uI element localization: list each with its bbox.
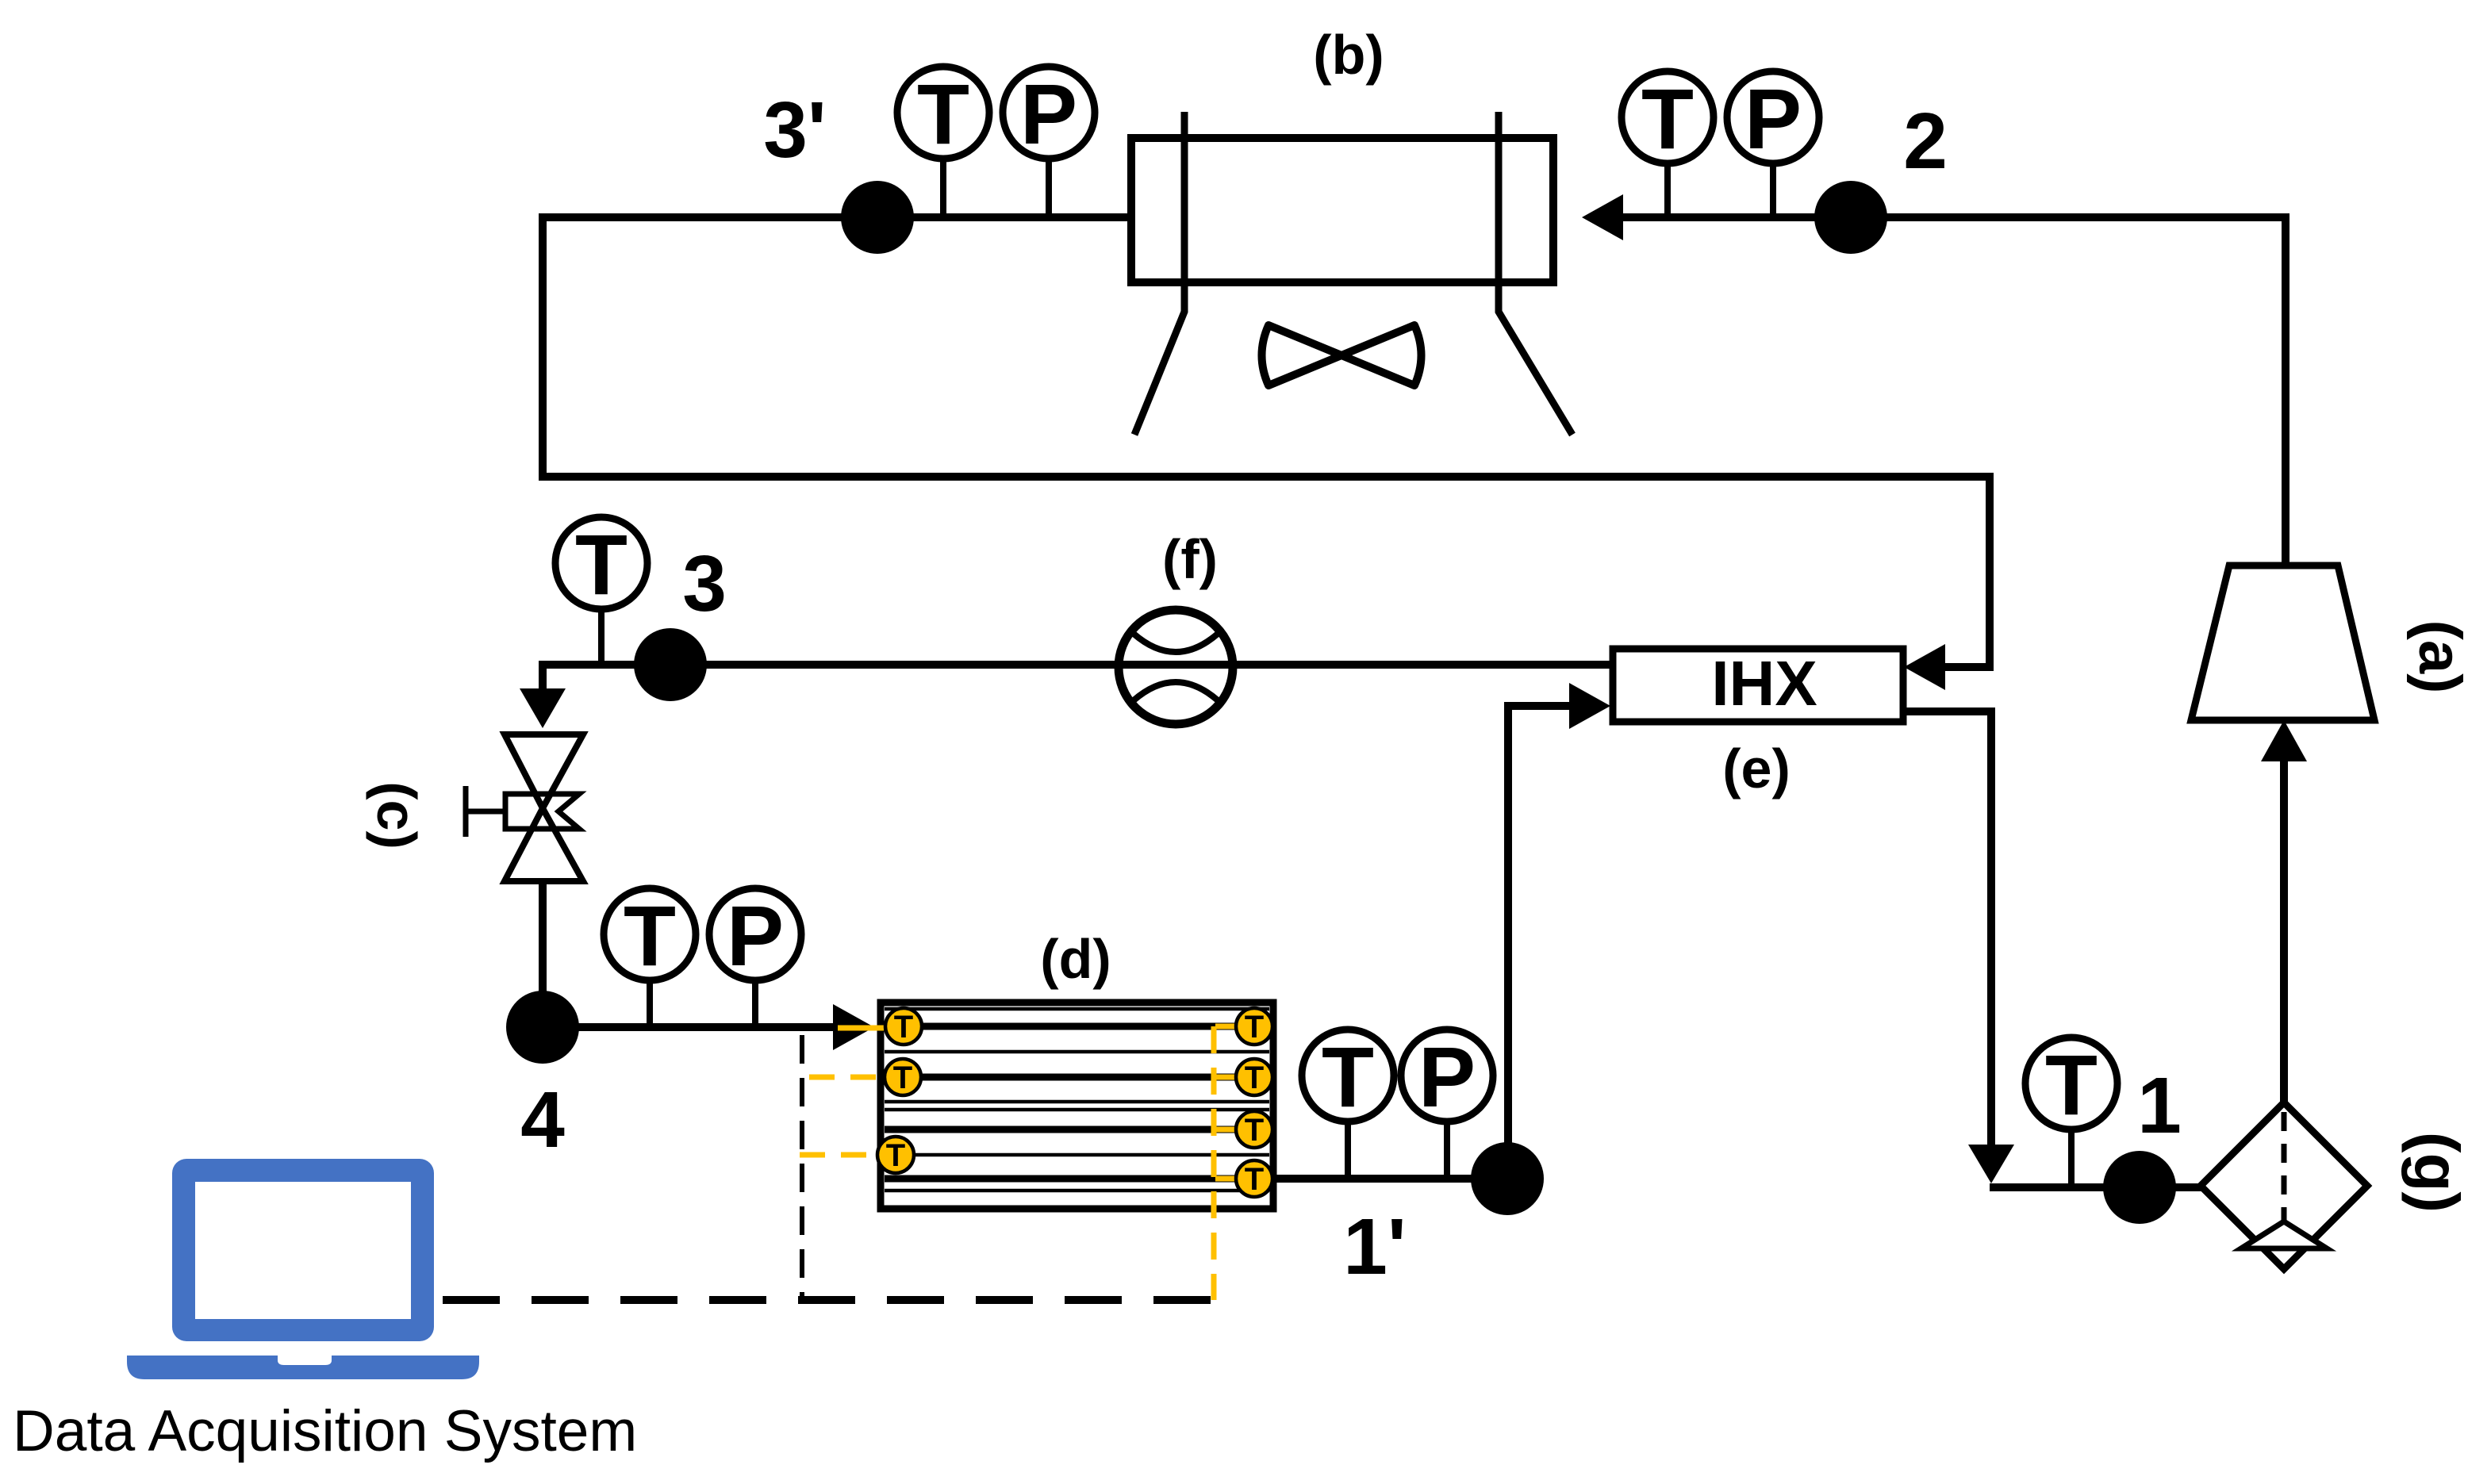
- svg-text:4: 4: [520, 1076, 565, 1164]
- svg-text:(f): (f): [1162, 528, 1218, 590]
- svg-text:T: T: [894, 1010, 913, 1045]
- svg-text:(b): (b): [1313, 24, 1384, 86]
- svg-text:T: T: [917, 66, 969, 162]
- svg-text:2: 2: [1903, 97, 1948, 186]
- svg-text:T: T: [624, 888, 676, 984]
- svg-text:P: P: [727, 888, 784, 984]
- svg-text:T: T: [1641, 71, 1694, 167]
- svg-text:IHX: IHX: [1711, 648, 1817, 719]
- svg-text:T: T: [893, 1060, 912, 1095]
- svg-text:T: T: [1245, 1010, 1264, 1045]
- svg-text:(c): (c): [366, 781, 428, 849]
- svg-text:T: T: [2045, 1037, 2098, 1133]
- svg-text:3': 3': [763, 86, 826, 174]
- svg-text:T: T: [1245, 1113, 1264, 1148]
- svg-text:1': 1': [1343, 1202, 1406, 1291]
- svg-text:1: 1: [2137, 1061, 2182, 1150]
- svg-text:P: P: [1744, 71, 1802, 167]
- svg-text:Data Acquisition System: Data Acquisition System: [13, 1399, 637, 1463]
- svg-text:(a): (a): [2406, 620, 2474, 694]
- svg-text:P: P: [1418, 1029, 1476, 1125]
- svg-text:(d): (d): [1040, 928, 1111, 990]
- svg-text:(e): (e): [1722, 738, 1791, 800]
- svg-text:(g): (g): [2401, 1132, 2472, 1213]
- svg-text:3: 3: [682, 539, 727, 628]
- svg-text:T: T: [886, 1138, 905, 1173]
- svg-text:T: T: [575, 516, 628, 612]
- svg-text:T: T: [1245, 1162, 1264, 1197]
- svg-text:P: P: [1020, 66, 1077, 162]
- svg-text:T: T: [1245, 1060, 1264, 1095]
- svg-text:T: T: [1322, 1029, 1374, 1125]
